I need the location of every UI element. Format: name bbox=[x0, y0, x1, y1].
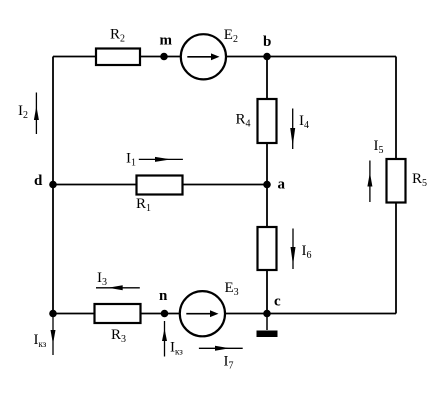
svg-text:m: m bbox=[160, 33, 173, 49]
svg-text:I2: I2 bbox=[18, 103, 28, 121]
current arrow I1 (right) bbox=[139, 157, 183, 162]
label R2 bbox=[110, 27, 125, 45]
wire ground stem from node c bbox=[266, 314, 268, 331]
wire middle vertical b-c bbox=[266, 57, 268, 314]
svg-text:E3: E3 bbox=[225, 280, 239, 298]
node bottom-left junction bbox=[49, 310, 57, 318]
voltage source E2 bbox=[181, 34, 226, 79]
label c bbox=[274, 294, 281, 310]
label b bbox=[263, 34, 271, 50]
resistor R2 bbox=[96, 49, 140, 66]
svg-text:R3: R3 bbox=[111, 327, 126, 345]
svg-text:E2: E2 bbox=[224, 27, 238, 45]
node m bbox=[160, 53, 168, 61]
wire left (53,56.5)-(53,313.5) bbox=[52, 57, 54, 314]
resistor R5 bbox=[387, 159, 406, 203]
svg-text:d: d bbox=[34, 173, 43, 189]
svg-text:b: b bbox=[263, 34, 271, 50]
svg-text:I7: I7 bbox=[224, 354, 234, 372]
label E3 bbox=[225, 280, 239, 298]
label I1 bbox=[126, 151, 136, 169]
label E2 bbox=[224, 27, 238, 45]
node a bbox=[263, 181, 271, 189]
label n bbox=[159, 288, 168, 304]
svg-text:I4: I4 bbox=[299, 113, 309, 131]
svg-text:Iкз: Iкз bbox=[170, 340, 183, 357]
current arrow I6 (down) bbox=[291, 229, 296, 270]
label R3 bbox=[111, 327, 126, 345]
current arrow Ik3 left (down, below bottom-left node) bbox=[51, 316, 56, 355]
label I6 bbox=[302, 243, 312, 261]
voltage source E3 bbox=[180, 291, 225, 336]
label I5 bbox=[374, 138, 384, 156]
label R5 bbox=[412, 171, 427, 189]
resistor R4 bbox=[258, 99, 277, 143]
svg-text:a: a bbox=[278, 177, 286, 193]
svg-text:R1: R1 bbox=[136, 196, 151, 214]
node c bbox=[263, 310, 271, 318]
svg-text:R4: R4 bbox=[236, 112, 251, 130]
svg-text:I6: I6 bbox=[302, 243, 312, 261]
label I3 bbox=[97, 270, 107, 288]
resistor R1 bbox=[137, 176, 183, 195]
label R1 bbox=[136, 196, 151, 214]
wire middle horizontal d-a bbox=[53, 184, 267, 186]
label I2 bbox=[18, 103, 28, 121]
svg-text:R5: R5 bbox=[412, 171, 427, 189]
label m bbox=[160, 33, 173, 49]
wire top (53,56.5)-(396,56.5) bbox=[53, 56, 396, 58]
node b bbox=[263, 53, 271, 61]
svg-text:n: n bbox=[159, 288, 168, 304]
current arrow I2 (up) bbox=[34, 93, 39, 135]
label a bbox=[278, 177, 286, 193]
svg-text:c: c bbox=[274, 294, 281, 310]
svg-text:I1: I1 bbox=[126, 151, 136, 169]
label Ik3 left bbox=[34, 332, 47, 349]
svg-text:I3: I3 bbox=[97, 270, 107, 288]
label I7 bbox=[224, 354, 234, 372]
label d bbox=[34, 173, 43, 189]
wire right (396,56.5)-(396,313.5) bbox=[395, 57, 397, 314]
current arrow I3 (left) bbox=[96, 285, 140, 290]
current arrow I7 (right) bbox=[199, 346, 243, 351]
node n bbox=[161, 310, 169, 318]
label Ik3 under n bbox=[170, 340, 183, 357]
svg-text:R2: R2 bbox=[110, 27, 125, 45]
wire bottom (53,313.5)-(396,313.5) bbox=[53, 313, 396, 315]
label R4 bbox=[236, 112, 251, 130]
current arrow I4 (down) bbox=[290, 109, 295, 150]
svg-text:I5: I5 bbox=[374, 138, 384, 156]
current arrow Ik3 below node n (up) bbox=[162, 321, 167, 357]
svg-text:Iкз: Iкз bbox=[34, 332, 47, 349]
node d bbox=[49, 181, 57, 189]
label I4 bbox=[299, 113, 309, 131]
current arrow I5 (up) bbox=[367, 161, 372, 203]
resistor R3 bbox=[95, 304, 141, 323]
resistor R6 unlabeled between a and c bbox=[258, 227, 277, 270]
ground bbox=[257, 331, 278, 338]
